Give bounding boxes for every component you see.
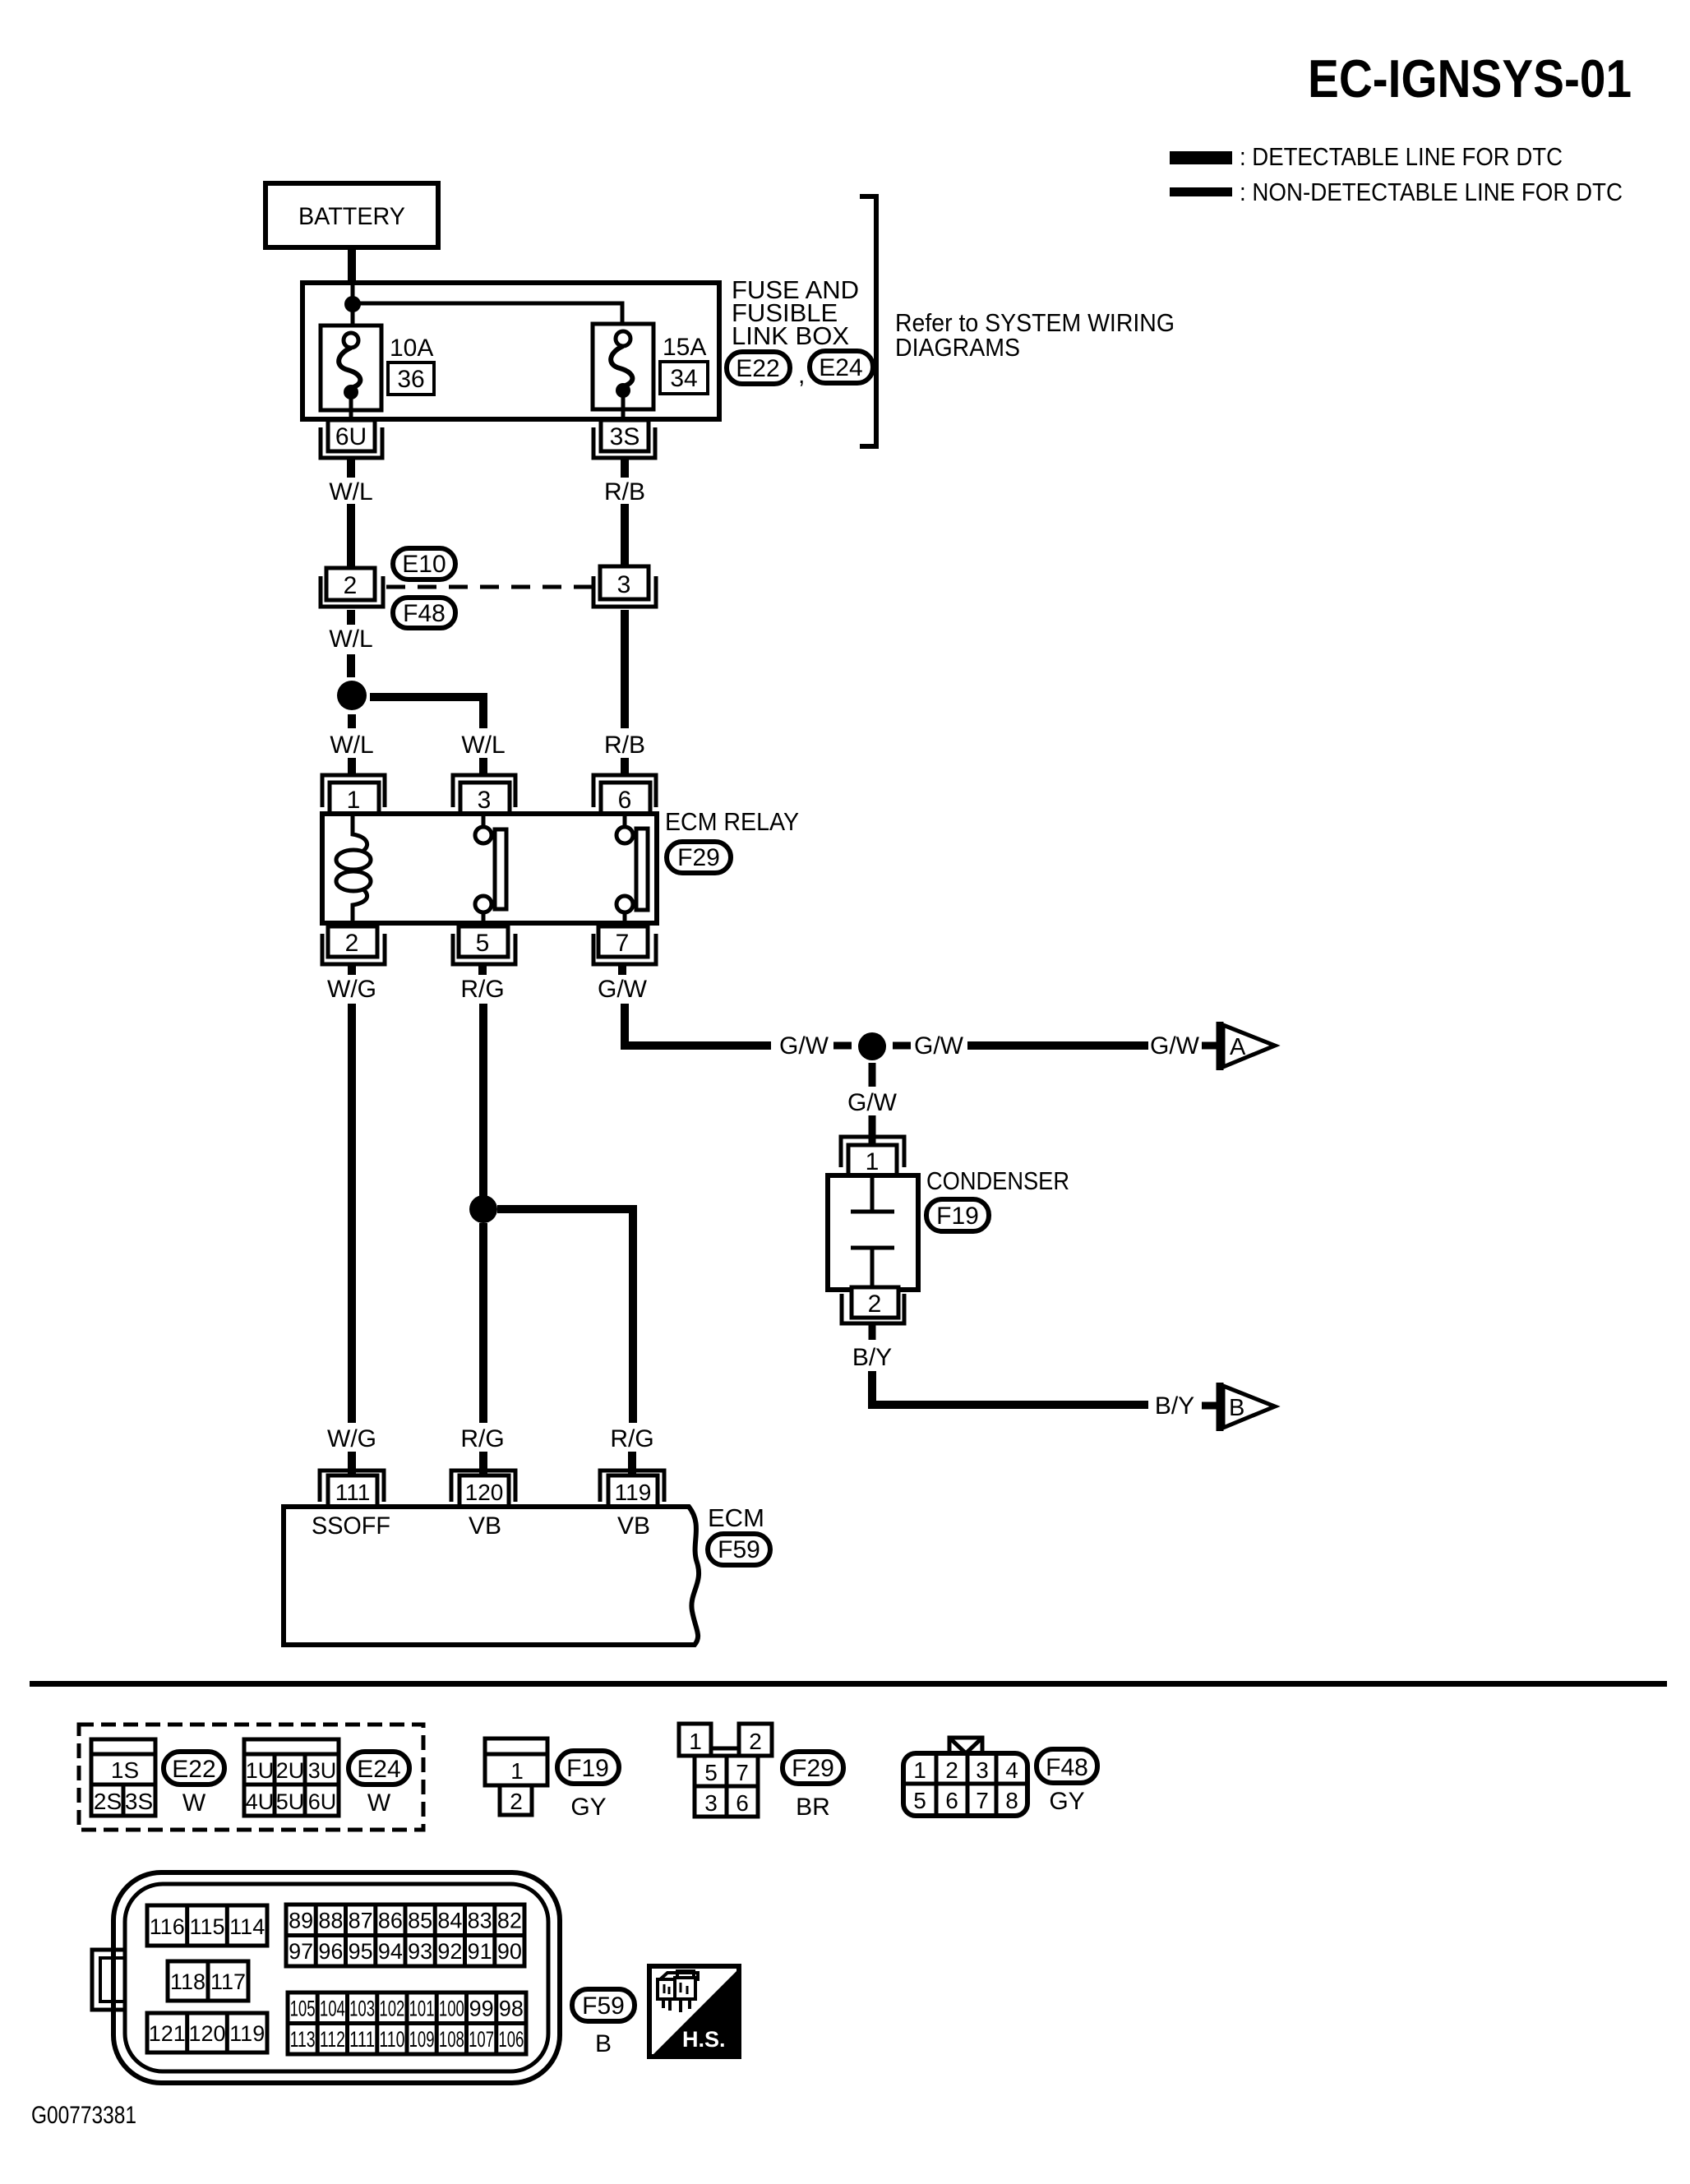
ECM pin 119 box bbox=[608, 1475, 658, 1507]
wire 6U down bbox=[347, 458, 355, 478]
svg-text:111: 111 bbox=[335, 1480, 371, 1505]
svg-text:,: , bbox=[798, 362, 805, 389]
svg-text:B: B bbox=[595, 2030, 612, 2057]
svg-text:2: 2 bbox=[945, 1757, 958, 1783]
value box 34 bbox=[660, 362, 708, 394]
svg-text:1S: 1S bbox=[111, 1757, 139, 1783]
wire G/W vertical to corner bbox=[625, 1004, 771, 1046]
svg-text:6U: 6U bbox=[308, 1789, 337, 1814]
relay contact 6-7 bbox=[616, 814, 648, 923]
svg-text:R/G: R/G bbox=[460, 976, 504, 1003]
H.S. view icon bbox=[649, 1966, 739, 2057]
svg-text:103: 103 bbox=[349, 1997, 375, 2021]
condenser pin 2 bracket bbox=[842, 1294, 904, 1323]
svg-text:G/W: G/W bbox=[847, 1089, 898, 1116]
svg-text:1: 1 bbox=[913, 1757, 926, 1783]
svg-text:2: 2 bbox=[868, 1291, 882, 1318]
svg-text:95: 95 bbox=[349, 1939, 373, 1964]
wire stub at arrow A bbox=[1202, 1042, 1219, 1050]
svg-text:W/L: W/L bbox=[329, 478, 372, 506]
svg-text:3: 3 bbox=[704, 1790, 718, 1816]
svg-text:120: 120 bbox=[188, 2021, 225, 2046]
svg-text:120: 120 bbox=[465, 1480, 504, 1505]
wire connector 2 down bbox=[347, 610, 355, 625]
svg-text:W/L: W/L bbox=[330, 732, 373, 759]
svg-text:CONDENSER: CONDENSER bbox=[926, 1166, 1069, 1195]
ECM pin 120 box bbox=[459, 1475, 509, 1507]
svg-text:5: 5 bbox=[704, 1760, 718, 1785]
svg-text:1U: 1U bbox=[246, 1758, 275, 1783]
wire R/B down bbox=[621, 610, 629, 728]
svg-text:5: 5 bbox=[913, 1788, 926, 1813]
svg-text:1: 1 bbox=[510, 1758, 524, 1784]
node G/W junction bbox=[858, 1032, 886, 1060]
svg-text:DIAGRAMS: DIAGRAMS bbox=[895, 333, 1020, 362]
svg-text:6: 6 bbox=[945, 1788, 958, 1813]
ECM box with torn edge bbox=[284, 1507, 699, 1645]
off-page arrow A bbox=[1220, 1022, 1275, 1070]
connector oval F59 bottom bbox=[572, 1989, 635, 2057]
svg-text:113: 113 bbox=[290, 2027, 316, 2052]
connector oval E24 bottom bbox=[349, 1752, 409, 1817]
connector 3 (E10/F48) bbox=[593, 566, 656, 607]
wire stub at arrow B bbox=[1202, 1402, 1219, 1410]
svg-text:VB: VB bbox=[617, 1512, 650, 1540]
refer-to bracket bbox=[860, 196, 876, 446]
svg-text:112: 112 bbox=[320, 2027, 345, 2052]
battery B1 bbox=[266, 183, 438, 247]
relay pin 3 box bbox=[460, 783, 510, 814]
connector oval F19 bbox=[926, 1199, 989, 1231]
svg-text:7: 7 bbox=[976, 1788, 989, 1813]
svg-text:G/W: G/W bbox=[1150, 1032, 1200, 1060]
connector view E24 bbox=[244, 1739, 339, 1816]
connector oval F59 bbox=[708, 1534, 770, 1565]
svg-text:F48: F48 bbox=[403, 600, 446, 627]
svg-text:R/B: R/B bbox=[604, 478, 645, 506]
svg-text:2U: 2U bbox=[276, 1758, 305, 1783]
svg-text:116: 116 bbox=[150, 1914, 185, 1939]
wire stub to pin 111 bbox=[348, 1452, 356, 1475]
F59 cells 121-119 bbox=[147, 2013, 267, 2052]
svg-text:R/B: R/B bbox=[604, 732, 645, 759]
svg-text:119: 119 bbox=[615, 1480, 652, 1505]
condenser C1 body bbox=[828, 1175, 918, 1290]
svg-text:110: 110 bbox=[379, 2027, 404, 2052]
connector 2 (E10/F48) bbox=[321, 568, 383, 607]
svg-text:A: A bbox=[1230, 1034, 1246, 1060]
svg-text:82: 82 bbox=[497, 1909, 522, 1933]
svg-text:8: 8 bbox=[1005, 1788, 1018, 1813]
svg-text:3S: 3S bbox=[610, 423, 640, 450]
connector oval F19 bottom bbox=[557, 1751, 619, 1821]
dashed harness line between 2 and 3 bbox=[386, 585, 597, 589]
svg-text:7: 7 bbox=[736, 1760, 749, 1785]
svg-text:H.S.: H.S. bbox=[682, 2027, 726, 2052]
svg-text:109: 109 bbox=[409, 2027, 435, 2052]
svg-text:106: 106 bbox=[498, 2027, 524, 2052]
svg-text:2: 2 bbox=[510, 1789, 523, 1814]
relay pin 2 box bbox=[328, 926, 377, 957]
wire node down dash (condenser branch) bbox=[869, 1063, 876, 1087]
wire R/G to node bbox=[479, 1004, 487, 1196]
wire condenser pin2 stub bbox=[869, 1323, 876, 1340]
svg-text:4: 4 bbox=[1005, 1757, 1018, 1783]
node junction inside fuse box bbox=[344, 296, 361, 312]
wire W/L to relay pin 1 bbox=[348, 758, 356, 776]
node R/G junction bbox=[469, 1195, 497, 1223]
svg-text:91: 91 bbox=[468, 1939, 492, 1964]
svg-text:W/G: W/G bbox=[327, 1425, 376, 1452]
svg-text:6: 6 bbox=[618, 787, 632, 814]
connector view F19 bbox=[485, 1738, 547, 1815]
svg-text:2: 2 bbox=[344, 572, 358, 599]
svg-text:3: 3 bbox=[478, 787, 492, 814]
connector oval F48 bottom bbox=[1037, 1749, 1097, 1815]
svg-text:98: 98 bbox=[499, 1997, 524, 2021]
relay pin 1 bracket bbox=[322, 775, 385, 807]
node W/L junction bbox=[337, 681, 367, 710]
relay pin 7 box bbox=[598, 926, 648, 957]
svg-text:E22: E22 bbox=[172, 1756, 215, 1783]
wire stub to pin 119 bbox=[628, 1452, 636, 1475]
F59 grid 89-90 bbox=[286, 1905, 524, 1966]
ECM pin 120 bracket bbox=[451, 1471, 515, 1502]
svg-text:5: 5 bbox=[476, 930, 490, 957]
svg-text:ECM RELAY: ECM RELAY bbox=[665, 807, 799, 836]
connector oval F29 bbox=[667, 842, 731, 873]
svg-text:92: 92 bbox=[437, 1939, 462, 1964]
svg-text:B/Y: B/Y bbox=[1155, 1392, 1194, 1420]
ECM pin 111 box bbox=[328, 1475, 377, 1507]
svg-text:87: 87 bbox=[349, 1909, 373, 1933]
svg-text:108: 108 bbox=[439, 2027, 464, 2052]
svg-text:F59: F59 bbox=[582, 1992, 625, 2020]
ECM connector F59 outer shell bbox=[113, 1872, 560, 2083]
svg-text:99: 99 bbox=[469, 1997, 494, 2021]
F59 cells 116-114 bbox=[147, 1905, 267, 1946]
off-page arrow B bbox=[1220, 1383, 1275, 1431]
svg-text:89: 89 bbox=[289, 1909, 313, 1933]
svg-text:2: 2 bbox=[749, 1729, 762, 1754]
relay pin 7 bracket bbox=[593, 934, 656, 964]
wire junction to fuse 15A bbox=[357, 303, 622, 331]
svg-text:EC-IGNSYS-01: EC-IGNSYS-01 bbox=[1308, 48, 1632, 109]
capacitor symbol bbox=[851, 1175, 894, 1290]
svg-text:83: 83 bbox=[468, 1909, 492, 1933]
wire segment below node bbox=[348, 714, 356, 728]
svg-text:F48: F48 bbox=[1046, 1754, 1088, 1781]
terminal 6U bbox=[321, 420, 382, 458]
relay contact 3-5 bbox=[475, 814, 506, 923]
wire W/G long bbox=[348, 1004, 356, 1423]
svg-text:88: 88 bbox=[318, 1909, 343, 1933]
svg-text:1: 1 bbox=[689, 1729, 702, 1754]
svg-text:R/G: R/G bbox=[460, 1425, 504, 1452]
svg-text:111: 111 bbox=[349, 2027, 375, 2052]
svg-text:94: 94 bbox=[378, 1939, 403, 1964]
svg-text:W: W bbox=[367, 1789, 391, 1817]
svg-text:1: 1 bbox=[347, 787, 361, 814]
svg-text:2S: 2S bbox=[94, 1789, 122, 1814]
svg-text:118: 118 bbox=[170, 1969, 205, 1994]
wire stub to condenser pin1 bbox=[869, 1115, 876, 1145]
wire branch to relay pin 3 bbox=[479, 758, 487, 776]
svg-text:E24: E24 bbox=[819, 354, 862, 381]
svg-text:84: 84 bbox=[437, 1909, 462, 1933]
wire R/B to relay pin 6 bbox=[621, 758, 629, 776]
svg-text:1: 1 bbox=[866, 1148, 880, 1175]
connector view F29 bbox=[679, 1724, 772, 1817]
relay coil bbox=[336, 814, 371, 923]
svg-text:101: 101 bbox=[409, 1997, 435, 2021]
svg-text:121: 121 bbox=[149, 2021, 186, 2046]
svg-text:6: 6 bbox=[736, 1790, 749, 1816]
svg-text:G00773381: G00773381 bbox=[31, 2102, 136, 2129]
svg-text:115: 115 bbox=[189, 1914, 224, 1939]
svg-text:VB: VB bbox=[469, 1512, 501, 1540]
wire W/L to connector 2 bbox=[347, 504, 355, 568]
svg-text:3: 3 bbox=[976, 1757, 989, 1783]
F59 grid 105-106 bbox=[288, 1992, 526, 2054]
relay pin 5 bracket bbox=[453, 934, 515, 964]
svg-text:7: 7 bbox=[616, 930, 630, 957]
relay pin 6 bracket bbox=[593, 775, 656, 807]
value box 36 bbox=[388, 362, 434, 395]
svg-text:15A: 15A bbox=[663, 334, 706, 361]
wire R/G below node bbox=[479, 1223, 487, 1423]
condenser pin 1 bracket bbox=[841, 1137, 904, 1167]
svg-text:102: 102 bbox=[379, 1997, 404, 2021]
svg-text:85: 85 bbox=[408, 1909, 432, 1933]
svg-text:F59: F59 bbox=[718, 1536, 760, 1563]
connector oval E24 bbox=[810, 351, 873, 383]
svg-text:86: 86 bbox=[378, 1909, 403, 1933]
svg-text:105: 105 bbox=[290, 1997, 316, 2021]
wire dash after node bbox=[893, 1042, 911, 1050]
connector oval E22 bottom bbox=[164, 1752, 224, 1817]
svg-text:: DETECTABLE LINE FOR DTC: : DETECTABLE LINE FOR DTC bbox=[1240, 142, 1563, 171]
svg-text:114: 114 bbox=[229, 1914, 265, 1939]
connector oval E10 bbox=[393, 548, 455, 579]
svg-text:3U: 3U bbox=[308, 1758, 337, 1783]
svg-text:SSOFF: SSOFF bbox=[312, 1512, 390, 1540]
connector oval E22 bbox=[727, 352, 805, 389]
relay pin 1 box bbox=[330, 783, 379, 814]
wire pin7 stub bbox=[618, 964, 626, 975]
wire branch node to pin 119 bbox=[497, 1209, 633, 1423]
svg-text:97: 97 bbox=[289, 1939, 313, 1964]
wire battery to fuse box bbox=[348, 247, 356, 284]
wire 3S down bbox=[621, 458, 629, 478]
relay pin 6 box bbox=[601, 783, 650, 814]
svg-text:3S: 3S bbox=[125, 1789, 153, 1814]
wire R/B to connector 3 bbox=[621, 504, 629, 566]
svg-text:G/W: G/W bbox=[779, 1032, 829, 1060]
ECM relay body bbox=[322, 814, 657, 923]
legend detectable line bar bbox=[1170, 151, 1232, 164]
svg-text:93: 93 bbox=[408, 1939, 432, 1964]
ECM pin 111 bracket bbox=[320, 1471, 384, 1502]
svg-text:F29: F29 bbox=[677, 844, 720, 871]
svg-text:: NON-DETECTABLE LINE FOR DTC: : NON-DETECTABLE LINE FOR DTC bbox=[1240, 178, 1623, 206]
relay pin 3 bracket bbox=[453, 775, 515, 807]
svg-text:E10: E10 bbox=[402, 551, 446, 578]
wire G/W long to arrow A bbox=[967, 1041, 1148, 1050]
svg-text:G/W: G/W bbox=[914, 1032, 964, 1060]
svg-text:W/G: W/G bbox=[327, 976, 376, 1003]
svg-text:F29: F29 bbox=[792, 1755, 834, 1782]
svg-text:ECM: ECM bbox=[708, 1503, 764, 1532]
wire pin2 stub bbox=[348, 964, 356, 975]
svg-text:2: 2 bbox=[345, 930, 359, 957]
condenser pin 1 box bbox=[848, 1145, 897, 1175]
svg-text:4U: 4U bbox=[246, 1789, 275, 1814]
fusible link 15A 34 bbox=[593, 324, 653, 421]
svg-text:W: W bbox=[182, 1789, 206, 1817]
svg-text:E24: E24 bbox=[357, 1756, 400, 1783]
svg-text:F19: F19 bbox=[936, 1203, 979, 1230]
svg-text:107: 107 bbox=[469, 2027, 494, 2052]
svg-text:6U: 6U bbox=[335, 423, 367, 450]
svg-text:GY: GY bbox=[1049, 1788, 1084, 1815]
dashed group box E22/E24 bbox=[79, 1725, 423, 1830]
svg-text:GY: GY bbox=[570, 1794, 606, 1821]
terminal 3S bbox=[593, 420, 655, 458]
F59 left tab bbox=[92, 1950, 125, 2010]
svg-text:BR: BR bbox=[796, 1794, 830, 1821]
wire junction to fuse 10A bbox=[351, 284, 355, 332]
svg-text:G/W: G/W bbox=[598, 976, 648, 1003]
svg-text:34: 34 bbox=[670, 365, 697, 392]
connector oval F29 bottom bbox=[783, 1752, 843, 1821]
svg-text:E22: E22 bbox=[736, 355, 779, 382]
svg-text:96: 96 bbox=[318, 1939, 343, 1964]
svg-text:36: 36 bbox=[397, 366, 424, 393]
svg-text:W/L: W/L bbox=[461, 732, 505, 759]
fuse and fusible link box outline bbox=[302, 283, 719, 419]
svg-text:3: 3 bbox=[617, 571, 631, 598]
svg-text:100: 100 bbox=[439, 1997, 464, 2021]
wire W/L segment to node bbox=[347, 654, 355, 677]
svg-text:90: 90 bbox=[497, 1939, 522, 1964]
relay pin 5 box bbox=[459, 926, 508, 957]
svg-text:BATTERY: BATTERY bbox=[298, 203, 405, 230]
wire B/Y to arrow B bbox=[872, 1371, 1148, 1405]
svg-text:5U: 5U bbox=[276, 1789, 305, 1814]
F59 cells 118-117 bbox=[168, 1961, 248, 2001]
svg-text:10A: 10A bbox=[390, 335, 433, 362]
svg-text:W/L: W/L bbox=[329, 626, 372, 653]
separator line bbox=[30, 1681, 1667, 1687]
connector view F48 bbox=[903, 1738, 1027, 1816]
relay pin 2 bracket bbox=[322, 934, 385, 964]
svg-text:104: 104 bbox=[320, 1997, 345, 2021]
svg-text:117: 117 bbox=[210, 1969, 246, 1994]
fusible link 10A 36 bbox=[321, 326, 381, 421]
condenser pin 2 box bbox=[852, 1287, 898, 1318]
svg-text:B/Y: B/Y bbox=[852, 1344, 892, 1371]
svg-text:B: B bbox=[1229, 1395, 1244, 1421]
connector oval F48 bbox=[393, 598, 455, 628]
svg-text:LINK BOX: LINK BOX bbox=[732, 321, 849, 350]
ECM pin 119 bracket bbox=[600, 1471, 664, 1502]
svg-text:R/G: R/G bbox=[610, 1425, 653, 1452]
connector view E22 bbox=[91, 1739, 155, 1816]
wire dash before node bbox=[833, 1042, 852, 1050]
legend non-detectable line bar bbox=[1170, 187, 1232, 196]
svg-text:F19: F19 bbox=[566, 1755, 609, 1782]
wire branch node to relay pin 3 bbox=[370, 697, 483, 728]
wire pin5 stub bbox=[478, 964, 487, 975]
svg-text:119: 119 bbox=[229, 2021, 265, 2046]
wire stub to pin 120 bbox=[479, 1452, 487, 1475]
